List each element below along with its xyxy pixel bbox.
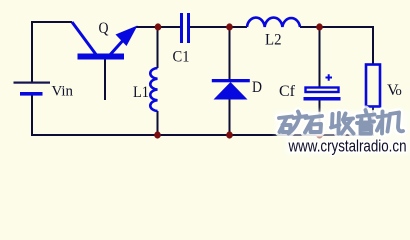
- char shi: [305, 116, 322, 133]
- inductor L2: [247, 18, 300, 27]
- svg-text:C1: C1: [173, 49, 190, 66]
- wire diode anode to rail: [229, 98, 231, 135]
- node A junction dot: [155, 23, 162, 30]
- char yin: [357, 110, 375, 134]
- char kuang: [279, 112, 307, 134]
- svg-text:D: D: [252, 79, 262, 96]
- capacitor Cf top plate: [306, 88, 339, 93]
- resistor load Vo box: [366, 65, 380, 107]
- wire battery negative down to bottom rail: [31, 94, 33, 136]
- capacitor C1 left plate: [180, 13, 183, 43]
- svg-text:www.crystalradio.cn: www.crystalradio.cn: [288, 138, 407, 156]
- svg-text:o: o: [396, 84, 402, 98]
- watermark glyph halo: [279, 110, 403, 134]
- node C junction dot: [316, 23, 323, 30]
- capacitor Cf plus sign: [326, 74, 333, 80]
- wire Vo bottom to rail: [372, 107, 374, 136]
- node E junction dot (diode bottom): [226, 131, 233, 138]
- node F junction dot (Cf bottom): [316, 131, 323, 138]
- svg-text:L2: L2: [265, 32, 282, 49]
- battery Vin negative plate: [20, 92, 43, 96]
- wire top-left from battery to emitter: [32, 22, 72, 83]
- wire L1 bottom to rail: [157, 111, 159, 135]
- wire C1 right plate to node B and on to L2: [190, 26, 247, 28]
- svg-text:Q: Q: [99, 20, 109, 37]
- transistor Q emitter line: [72, 22, 96, 55]
- char shou: [331, 113, 354, 134]
- inductor L1: [150, 68, 157, 111]
- wire bottom rail: [31, 134, 374, 136]
- transistor Q base lead: [104, 59, 106, 100]
- wire node B down to diode: [229, 27, 231, 80]
- char ji: [377, 112, 403, 134]
- wire node A down to L1: [157, 27, 159, 68]
- wire Cf bottom to rail: [319, 100, 321, 135]
- transistor Q base bar: [78, 54, 125, 60]
- svg-text:L1: L1: [133, 84, 149, 101]
- capacitor C1 right plate: [187, 13, 190, 43]
- svg-text:Cf: Cf: [279, 83, 296, 100]
- transistor Q collector line: [109, 37, 127, 57]
- svg-text:Vin: Vin: [52, 83, 74, 100]
- node B junction dot: [226, 23, 233, 30]
- transistor Q collector arrowhead: [116, 26, 138, 47]
- wire L2 to node C to top-right corner down to Vo: [300, 27, 373, 64]
- diode D triangle: [214, 82, 248, 100]
- diode D cathode bar: [212, 79, 250, 82]
- capacitor Cf bottom plate: [304, 97, 341, 101]
- watermark text kuang-shi-shou-yin-ji: [279, 110, 403, 134]
- battery Vin positive plate: [14, 82, 51, 84]
- wire collector arrow to node A and on to C1: [136, 26, 180, 28]
- wire node C down to Cf: [319, 27, 321, 87]
- node D junction dot (L1 bottom): [154, 131, 161, 138]
